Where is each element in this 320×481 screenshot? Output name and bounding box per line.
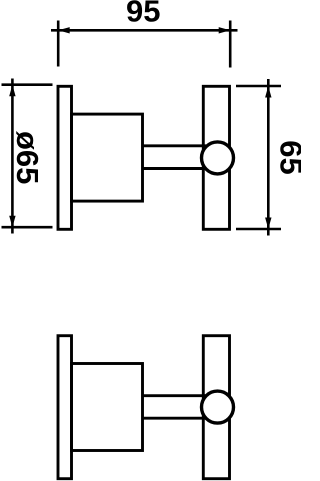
stem top line (bottom view)	[143, 394, 207, 397]
dimension ø65: bottom extension line	[2, 226, 53, 229]
dimension ø65: top extension line	[2, 83, 53, 86]
wall plate (top view)	[58, 86, 72, 229]
dimension 65: bottom extension line	[236, 228, 281, 231]
svg-text:95: 95	[126, 0, 160, 28]
body (bottom view)	[72, 364, 143, 451]
stem top line (top view)	[143, 144, 207, 147]
dimension 95: right extension line	[229, 21, 232, 68]
wall plate (bottom view)	[58, 336, 72, 479]
knob circle (bottom view)	[202, 391, 234, 423]
stem bottom line (bottom view)	[143, 417, 207, 420]
cross-bar (bottom view)	[203, 336, 229, 479]
dimension 95: left extension line	[57, 21, 60, 67]
dimension 65: top extension line	[236, 85, 281, 88]
svg-text:65: 65	[273, 140, 301, 174]
dimension 95: left arrowhead	[58, 27, 69, 33]
knob circle (top view)	[202, 142, 234, 174]
dimension 65: dim line	[267, 79, 270, 236]
body (top view)	[72, 114, 143, 201]
dimension ø65: top arrowhead	[9, 85, 15, 97]
dimension ø65: dim line	[11, 79, 14, 234]
stem bottom line (top view)	[143, 167, 207, 170]
dimension 95: right arrowhead	[219, 27, 231, 33]
dimension 65: bottom arrowhead	[265, 218, 271, 230]
dimension 95: dim line	[51, 29, 238, 32]
cross-bar (top view)	[203, 86, 229, 229]
dimension 65: top arrowhead	[265, 86, 271, 98]
svg-text:ø65: ø65	[10, 131, 45, 184]
dimension ø65: bottom arrowhead	[9, 216, 15, 228]
